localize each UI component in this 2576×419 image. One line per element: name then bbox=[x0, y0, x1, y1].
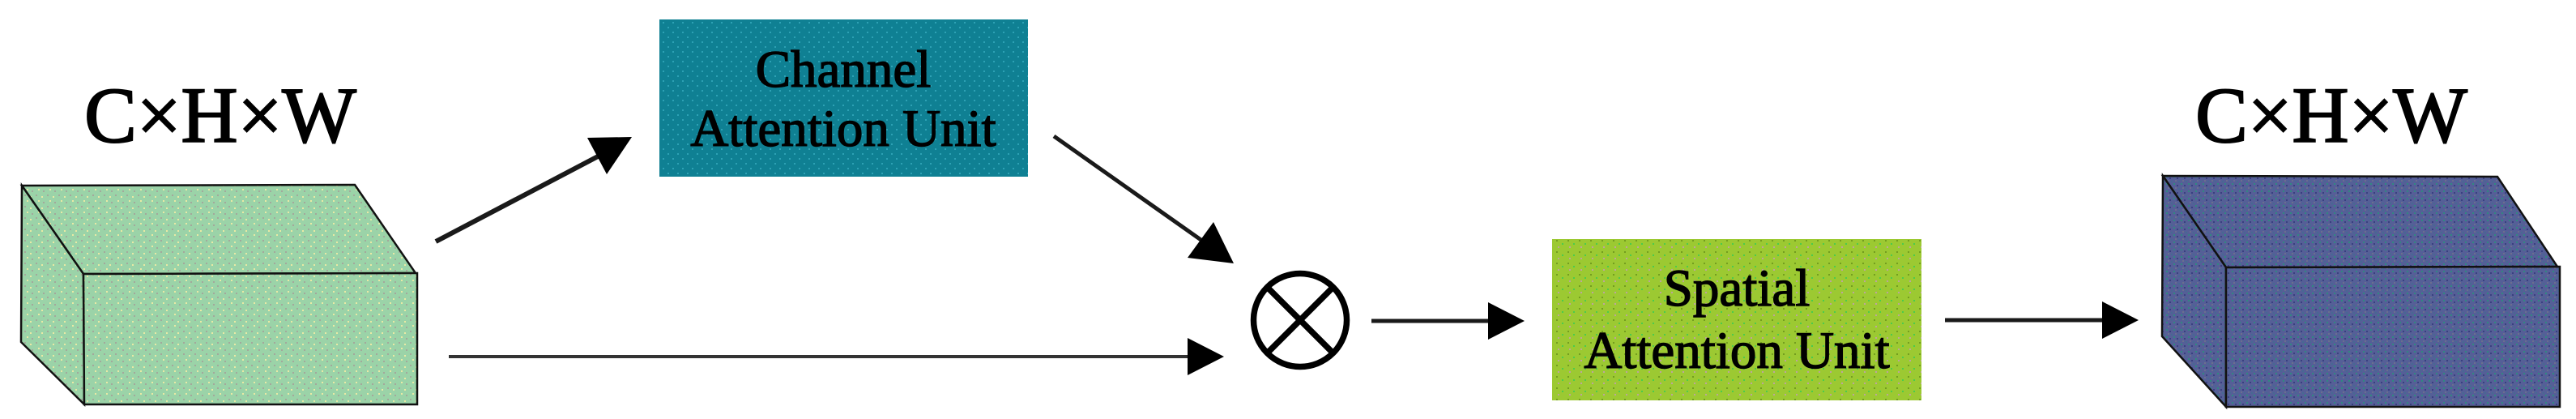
svg-text:Spatial: Spatial bbox=[1664, 259, 1810, 318]
arrow: Spatial Attention Unit to output bbox=[1945, 301, 2139, 339]
Spatial Attention Unit box bbox=[1552, 239, 1921, 400]
element-wise multiplication symbol (circle with X) bbox=[1254, 274, 1347, 367]
output feature map (blue 3D box) : top face bbox=[2163, 176, 2557, 267]
arrow: input to Channel Attention Unit bbox=[436, 137, 632, 242]
output feature map (blue 3D box) : left face bbox=[2162, 176, 2226, 407]
arrow: Channel Attention Unit to multiplier bbox=[1054, 136, 1234, 263]
arrow: input feature map to multiplier (skip connection) bbox=[449, 338, 1224, 375]
output feature map (blue 3D box) : front face bbox=[2226, 267, 2560, 407]
svg-text:C×H×W: C×H×W bbox=[2195, 72, 2467, 159]
svg-text:C×H×W: C×H×W bbox=[84, 72, 356, 159]
svg-text:Attention Unit: Attention Unit bbox=[1584, 322, 1889, 380]
input feature map (green 3D box) : front face bbox=[83, 273, 417, 404]
input feature map (green 3D box) : left face bbox=[21, 186, 84, 404]
svg-text:Attention Unit: Attention Unit bbox=[690, 100, 996, 158]
arrow: multiplier to Spatial Attention Unit bbox=[1371, 302, 1525, 340]
input feature map (green 3D box) : top face bbox=[22, 185, 416, 274]
svg-text:Channel: Channel bbox=[756, 41, 932, 99]
Channel Attention Unit box bbox=[659, 19, 1028, 177]
